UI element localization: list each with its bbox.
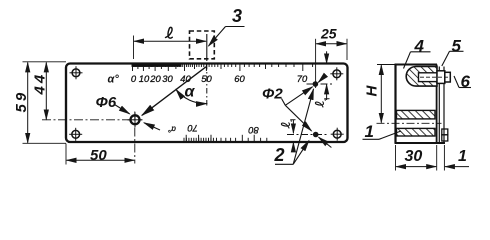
svg-text:59: 59: [13, 90, 30, 113]
t1/l1 label bottom (rotated): [281, 120, 295, 128]
top scale ticks: [133, 64, 313, 72]
centerline phi6 horizontal: [42, 119, 142, 121]
svg-text:3: 3: [232, 6, 242, 26]
dimension 50: [66, 144, 134, 165]
dimension 30: [396, 145, 437, 171]
bottom reversed scale ticks: [184, 135, 267, 142]
dimension 59: [23, 62, 67, 144]
pointer hub (hatched, label 4): [406, 67, 437, 87]
svg-text:25: 25: [320, 26, 337, 42]
svg-text:2: 2: [274, 145, 285, 165]
hole bottom-left: [69, 128, 82, 141]
centerline top phi2: [307, 83, 334, 85]
phi2 holes: [313, 81, 319, 87]
label 2 leaders: [275, 89, 314, 164]
t1 top dimension: [326, 51, 328, 100]
t1 bottom dimension: [292, 120, 294, 149]
opposing arrow at hub: [144, 123, 160, 130]
t1/l1 label top (rotated): [315, 99, 329, 107]
svg-text:1: 1: [365, 122, 374, 141]
dimension 25: [316, 39, 347, 88]
svg-text:50: 50: [201, 73, 212, 84]
svg-text:10: 10: [139, 73, 150, 84]
scale numbers: [131, 73, 308, 136]
hole bottom-right: [331, 128, 344, 141]
hole top-right: [330, 67, 343, 80]
svg-text:70: 70: [297, 73, 308, 84]
centerline phi6 vertical: [134, 112, 136, 164]
alpha angle arc: [176, 90, 207, 104]
svg-text:30: 30: [162, 73, 173, 84]
dashed vertical index line at 50: [206, 34, 208, 61]
svg-text:α°: α°: [167, 125, 176, 134]
svg-text:H: H: [364, 85, 381, 97]
script l label (dimension l): [166, 27, 173, 38]
lower bar (hatched, label 1): [397, 128, 436, 136]
dimension l: [134, 36, 206, 60]
hole phi6: [128, 112, 143, 127]
svg-text:5: 5: [452, 37, 462, 56]
centerline bottom phi2: [287, 134, 329, 136]
svg-text:30: 30: [405, 148, 423, 165]
dimension H: [377, 65, 396, 123]
svg-text:Φ2: Φ2: [262, 86, 283, 103]
thin scale strip: [439, 67, 444, 144]
pointer arm: [142, 67, 206, 116]
hole top-left: [70, 66, 83, 79]
svg-text:4: 4: [414, 37, 425, 56]
phi2 leaders: [282, 87, 313, 131]
scale smear band: [132, 64, 182, 67]
svg-text:α: α: [185, 84, 196, 101]
svg-text:40: 40: [180, 73, 191, 84]
svg-text:70: 70: [187, 123, 198, 134]
washer / nut (label 6): [445, 72, 451, 82]
dimension 44: [45, 63, 47, 120]
screw (label 5): [419, 71, 451, 84]
svg-text:Φ6: Φ6: [96, 94, 117, 111]
rivet B: [442, 129, 448, 141]
svg-text:1: 1: [458, 148, 467, 165]
upper bar (hatched): [397, 110, 436, 119]
centerline side view: [377, 122, 442, 124]
label 5 leader: [442, 51, 464, 66]
opposing arrows at phi2 holes: [318, 78, 322, 82]
svg-text:50: 50: [90, 147, 107, 164]
phi6 leader: [115, 105, 130, 114]
svg-text:6: 6: [461, 72, 471, 91]
plate outline: [66, 64, 348, 143]
label 6 leader: [454, 76, 471, 88]
svg-text:α°: α°: [108, 73, 120, 85]
svg-text:60: 60: [234, 73, 245, 84]
svg-text:0: 0: [131, 73, 137, 84]
label 4 leader: [404, 52, 431, 69]
side view body outline: [395, 65, 446, 144]
svg-text:80: 80: [248, 125, 259, 136]
detail box 3 (dashed): [190, 31, 215, 59]
svg-text:20: 20: [149, 73, 161, 84]
label 1 left: [363, 131, 402, 139]
svg-text:44: 44: [32, 72, 49, 96]
dimension 1 right: [444, 145, 469, 171]
label 3 leader: [209, 27, 245, 47]
